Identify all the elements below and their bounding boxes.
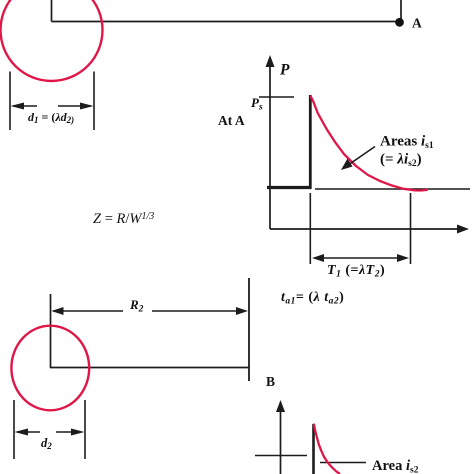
d2 dimension right tick	[84, 400, 86, 459]
T1 dimension left tick	[309, 193, 311, 264]
label (= lambda i_s2)	[380, 152, 422, 170]
Ps level tick	[259, 96, 294, 98]
Ps level tick of graph at B	[255, 455, 307, 457]
label A	[412, 16, 422, 31]
wire: ground line from charge 2 to target B	[50, 367, 249, 369]
label Area i_s2	[372, 458, 419, 474]
label B	[266, 374, 275, 389]
svg-text:A: A	[412, 16, 422, 31]
label ta1 = (lambda ta2)	[281, 290, 344, 307]
label d1 = (lambda d2)	[28, 110, 74, 125]
label P	[280, 62, 290, 79]
R2 double-headed dimension arrow	[52, 307, 249, 315]
shock front vertical rise at A	[309, 95, 312, 189]
P axis of graph at B	[276, 400, 285, 474]
d1 dimension left tick	[9, 72, 11, 131]
annotation arrow to curve	[341, 147, 375, 171]
label d2	[41, 436, 52, 451]
label T1 (=lambda T2)	[327, 263, 385, 280]
label Z = R/W^1/3	[93, 211, 154, 227]
label Areas i_s1	[380, 134, 434, 152]
label R2	[129, 297, 144, 315]
d2 double-headed dimension arrow	[15, 429, 85, 436]
d2 dimension left tick	[13, 400, 15, 459]
wire: R1 dimension right tick above point A (cropped)	[400, 0, 402, 22]
svg-text:B: B	[266, 374, 275, 389]
wire: R1 standoff line from charge 1 to point A	[52, 21, 400, 23]
svg-text:At A: At A	[218, 113, 245, 128]
d1 dimension right tick	[93, 72, 95, 131]
red pressure decay curve at B	[314, 425, 339, 474]
P axis of graph at A	[266, 55, 275, 229]
target surface bar at B	[248, 278, 250, 381]
ambient pressure baseline (thick) before shock arrival	[267, 186, 312, 189]
wire: R1 dimension left tick (cropped)	[51, 0, 53, 22]
baseline after shock (thin)	[315, 188, 470, 190]
svg-text:P: P	[280, 62, 290, 79]
time axis of graph at A	[270, 225, 469, 234]
label At A	[218, 113, 245, 128]
charge sphere 2 (red circle, full scale charge)	[11, 326, 89, 411]
baseline after shock at B (thin)	[320, 462, 366, 464]
node A marker dot	[395, 18, 404, 27]
shock front vertical rise at B	[312, 424, 315, 474]
label Ps	[251, 95, 263, 113]
T1 dimension right tick	[410, 193, 412, 264]
d1 double-headed dimension arrow	[11, 103, 94, 110]
red pressure decay curve at A	[311, 97, 427, 191]
T1 double-headed dimension arrow	[312, 254, 409, 262]
R2 dimension left tick	[50, 294, 52, 368]
charge sphere 1 (red circle, scaled charge)	[1, 0, 103, 81]
